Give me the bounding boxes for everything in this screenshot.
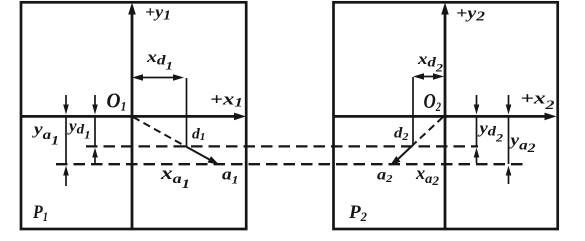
dimension x_d2 double arrow xyxy=(413,73,444,79)
dimension y_d1 lower arrow xyxy=(92,148,98,164)
solid ray d2 to a2 with arrowhead at a2 xyxy=(390,143,415,166)
dimension y_a2 extension line xyxy=(508,116,510,164)
dimension y_a1 extension line xyxy=(65,116,67,164)
y1 axis xyxy=(128,3,136,230)
dashed ray from O2 to point d2 xyxy=(415,117,443,143)
dimension y_d2 lower arrow xyxy=(474,148,480,164)
photo frame P2 xyxy=(334,2,558,229)
dimension y_a1 upper arrow xyxy=(63,95,69,115)
dimension y_d2 upper arrow xyxy=(474,95,480,115)
dashed ray from O1 to point d1 xyxy=(133,117,185,146)
dimension y_d1 extension line xyxy=(94,116,96,146)
dimension x_d1 double arrow xyxy=(132,74,184,80)
x2 axis xyxy=(334,113,557,121)
y2 axis xyxy=(441,3,449,230)
dimension y_d1 upper arrow xyxy=(92,95,98,115)
dimension y_a2 upper arrow xyxy=(506,95,512,115)
extension line from x_d1 down to point d1 xyxy=(186,78,188,147)
dimension y_a1 lower arrow xyxy=(63,166,69,187)
solid ray d1 to a1 with arrowhead at a1 xyxy=(185,146,219,165)
dashed epipolar line through a1 and a2 xyxy=(56,163,527,165)
photo frame P1 xyxy=(21,2,246,229)
dimension y_a2 lower arrow xyxy=(506,166,512,185)
dashed epipolar line through d1 and d2 xyxy=(86,145,478,147)
extension line from x_d2 down to point d2 xyxy=(412,77,414,144)
x1 axis xyxy=(21,113,246,121)
dimension y_d2 extension line xyxy=(476,116,478,146)
